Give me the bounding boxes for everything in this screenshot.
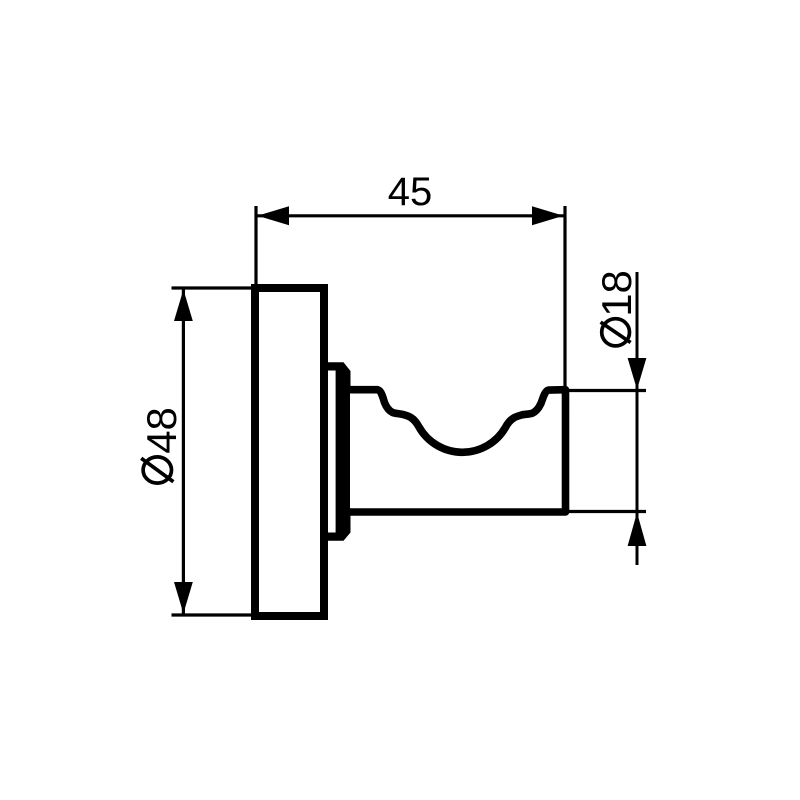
arrowhead left of 45 dimension xyxy=(258,206,290,225)
hook body fill xyxy=(350,390,566,512)
svg-text:48: 48 xyxy=(138,407,185,454)
arrowhead right of 45 dimension xyxy=(532,206,564,225)
extension line right of 45 dimension xyxy=(563,206,566,388)
diameter symbol circle of 48 xyxy=(143,457,171,483)
diameter symbol slash of 48 xyxy=(141,458,173,481)
extension line top of diameter 18 xyxy=(567,389,646,392)
dimension line 45 xyxy=(257,214,564,217)
collar inner slot xyxy=(328,371,336,533)
diameter symbol slash of 18 xyxy=(601,322,631,342)
extension line bottom of diameter 48 xyxy=(172,613,257,616)
svg-text:45: 45 xyxy=(388,170,433,214)
dimension line diameter 48 xyxy=(182,289,185,614)
arrowhead upper of diameter 18 xyxy=(628,358,647,390)
extension line top of diameter 48 xyxy=(172,286,257,289)
hook body outline xyxy=(350,390,566,512)
svg-text:18: 18 xyxy=(593,270,640,317)
wall plate (backplate, side view) xyxy=(255,288,324,616)
arrowhead lower of diameter 18 xyxy=(628,513,647,547)
mounting collar xyxy=(324,362,351,541)
arrowhead bottom of diameter 48 xyxy=(174,582,193,614)
extension line left of 45 dimension xyxy=(254,206,257,290)
arrowhead top of diameter 48 xyxy=(174,290,193,322)
dimension line diameter 18 xyxy=(636,272,639,565)
extension line bottom of diameter 18 xyxy=(567,510,646,513)
diameter symbol circle of 18 xyxy=(602,319,630,346)
